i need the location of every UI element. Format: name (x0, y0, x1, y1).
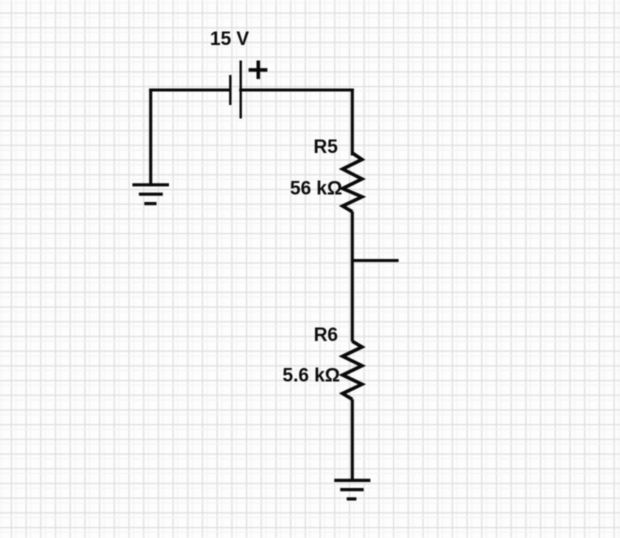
svg-text:56 kΩ: 56 kΩ (290, 178, 342, 199)
wire right vertical from corner down to R5 (351, 90, 354, 154)
ground GND1 (left) top bar (132, 183, 169, 186)
svg-text:R6: R6 (314, 325, 338, 346)
ground GND2 (bottom) middle bar (340, 488, 364, 491)
wire left vertical down to ground (149, 90, 152, 185)
resistor R6 zigzag body (343, 341, 362, 399)
wire from battery negative plate to top-left corner (151, 88, 230, 91)
battery V1 negative plate (short) (229, 75, 231, 105)
battery V1 positive plate (long) (239, 61, 241, 119)
svg-text:5.6 kΩ: 5.6 kΩ (283, 365, 341, 386)
resistor R5 zigzag body (343, 153, 362, 212)
wire output stub at node Vout (352, 259, 398, 262)
ground GND2 (bottom) top bar (334, 479, 370, 482)
ground GND2 (bottom) bottom bar (347, 497, 357, 500)
svg-text:15 V: 15 V (210, 29, 249, 50)
svg-text:R5: R5 (314, 137, 339, 158)
wire from R6 bottom down to ground (351, 399, 354, 480)
battery V1 polarity plus sign (249, 61, 268, 80)
wire from R5 bottom through node to R6 top (351, 212, 354, 342)
wire from battery positive plate to top-right corner (241, 88, 353, 91)
ground GND1 (left) bottom bar (144, 202, 156, 205)
ground GND1 (left) middle bar (139, 193, 163, 196)
